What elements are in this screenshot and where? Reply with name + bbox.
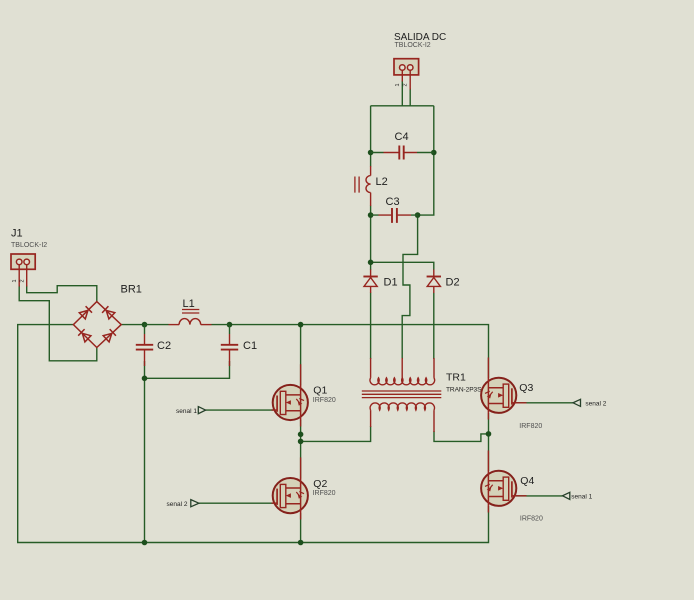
transistor Q3 IRF820 (mirrored) (481, 358, 542, 431)
svg-text:IRF820: IRF820 (519, 423, 542, 430)
node: Q3-Q4 column primary tap (486, 431, 492, 437)
svg-text:D1: D1 (384, 277, 398, 289)
svg-text:C4: C4 (395, 131, 409, 143)
capacitor C3 (371, 208, 418, 223)
svg-text:TRAN-2P3S: TRAN-2P3S (446, 387, 482, 394)
svg-text:Q4: Q4 (520, 475, 534, 487)
svg-text:TR1: TR1 (446, 372, 466, 384)
secondary left lead (370, 358, 372, 378)
diode D1 (363, 270, 377, 294)
svg-text:L1: L1 (183, 298, 195, 310)
svg-text:IRF820: IRF820 (520, 516, 543, 523)
svg-text:2: 2 (403, 83, 409, 86)
wire: senal1 input to Q1 gate (205, 409, 273, 411)
svg-text:senal 1: senal 1 (176, 408, 197, 415)
svg-text:Q1: Q1 (313, 385, 327, 397)
input terminal senal 1 (right) (563, 492, 593, 500)
wire: C2 column lower + rail to C1 (145, 361, 230, 543)
svg-text:IRF820: IRF820 (313, 490, 336, 497)
node: bus junction at C2 (142, 322, 148, 328)
core (362, 391, 442, 398)
node: C3 left (368, 212, 374, 218)
transistor Q2 IRF820 (272, 457, 336, 519)
wire: Q2 source to bottom rail (300, 513, 302, 542)
node: Q1-Q2 column upper (298, 432, 304, 438)
wire: Q3 gate to senal2 terminal (516, 402, 573, 404)
node: D1/D2 branch (368, 260, 374, 266)
node: C4 right (431, 150, 437, 156)
wire: transformer primary right lead to Q3/Q4 node (434, 431, 489, 441)
wire: SALIDA DC pins down to top loop (402, 81, 410, 106)
input terminal senal 1 (left) (176, 407, 206, 415)
node: Q1-Q2 column primary tap (298, 439, 304, 445)
wire: main horizontal bus (121, 325, 488, 378)
capacitor C2 (136, 325, 153, 366)
transistor Q1 IRF820 (272, 364, 336, 426)
diode on top-left edge (points to top vertex) (79, 306, 92, 319)
svg-text:2: 2 (20, 279, 26, 282)
node: C2 bottom junction (142, 376, 148, 382)
transistor Q4 IRF820 (mirrored) (481, 451, 543, 523)
terminal SALIDA DC TBLOCK-I2 (394, 32, 446, 89)
input terminal senal 2 (right) (573, 399, 607, 407)
node: bottom rail at left column (142, 540, 148, 546)
wire: J1 pin1 to bridge bottom (19, 286, 97, 361)
node: C3 right (415, 212, 421, 218)
svg-text:D2: D2 (446, 277, 460, 289)
svg-text:Q2: Q2 (313, 478, 327, 490)
svg-text:senal 1: senal 1 (571, 494, 592, 501)
svg-text:C1: C1 (243, 340, 257, 352)
wire: Q1 drain column (300, 325, 302, 386)
secondary winding (370, 378, 435, 385)
transformer TR1 TRAN-2P3S (362, 358, 442, 432)
wire: far-left loop + bottom rail (18, 325, 489, 543)
wire: left column C4 to L2 (370, 153, 372, 167)
wire: transformer primary left lead to Q1/Q2 node (301, 426, 371, 441)
svg-text:IRF820: IRF820 (313, 397, 336, 404)
wire: D1 anode down to transformer secondary left lead (370, 293, 372, 360)
bridge rectifier BR1 (73, 302, 121, 348)
primary right lead (433, 410, 435, 432)
inductor L1 (145, 310, 230, 325)
diode on top-right edge (points to top vertex) (102, 306, 115, 319)
svg-text:J1: J1 (11, 228, 23, 240)
node: bus junction at Q1 drain (298, 322, 304, 328)
primary winding (370, 403, 434, 410)
secondary center-tap lead (401, 358, 403, 378)
node: C4 left (368, 150, 374, 156)
svg-text:L2: L2 (376, 176, 388, 188)
diode on bottom-left edge (points to left vertex) (78, 329, 91, 342)
wire: Q3 source to Q4 drain (488, 413, 490, 471)
wire: D2 anode down to transformer secondary right lead (433, 293, 435, 360)
svg-text:senal 2: senal 2 (585, 401, 606, 408)
wire: Q4 gate to senal1 terminal (516, 495, 563, 497)
input terminal senal 2 (left) (167, 500, 199, 508)
svg-text:1: 1 (395, 83, 401, 86)
svg-text:C2: C2 (157, 340, 171, 352)
primary left lead (370, 410, 372, 427)
node: bus junction at C1 (227, 322, 233, 328)
node: bottom rail at Q2 source (298, 540, 304, 546)
diode on bottom-right edge (points to right vertex) (103, 329, 116, 342)
wire: left column L2 to C3 (370, 206, 372, 216)
wire: right column C4 down to C3 right node (418, 153, 434, 216)
svg-text:C3: C3 (386, 196, 400, 208)
terminal J1 TBLOCK-I2 (11, 228, 47, 287)
svg-text:BR1: BR1 (121, 284, 142, 296)
wire: branch from D1 column to D2 top (371, 262, 434, 270)
secondary right lead (433, 358, 435, 378)
wire: J1 pin2 to bridge top (27, 286, 97, 303)
svg-text:TBLOCK-I2: TBLOCK-I2 (11, 242, 47, 249)
svg-text:Q3: Q3 (519, 382, 533, 394)
wire: top loop (output filter) (371, 106, 434, 153)
svg-text:TBLOCK-I2: TBLOCK-I2 (395, 42, 431, 49)
diode D2 (427, 270, 441, 294)
svg-text:1: 1 (12, 279, 18, 282)
capacitor C1 (221, 325, 238, 366)
wire: Q1 source to Q2 drain (300, 420, 302, 479)
capacitor C4 (371, 146, 434, 160)
svg-text:senal 2: senal 2 (167, 501, 188, 508)
wire: left column C3 to D1 (370, 215, 372, 270)
wire: senal2 input to Q2 gate (199, 502, 273, 504)
wire: center-tap wire with jogs from C3 right node (402, 215, 417, 359)
inductor L2 (355, 166, 371, 206)
